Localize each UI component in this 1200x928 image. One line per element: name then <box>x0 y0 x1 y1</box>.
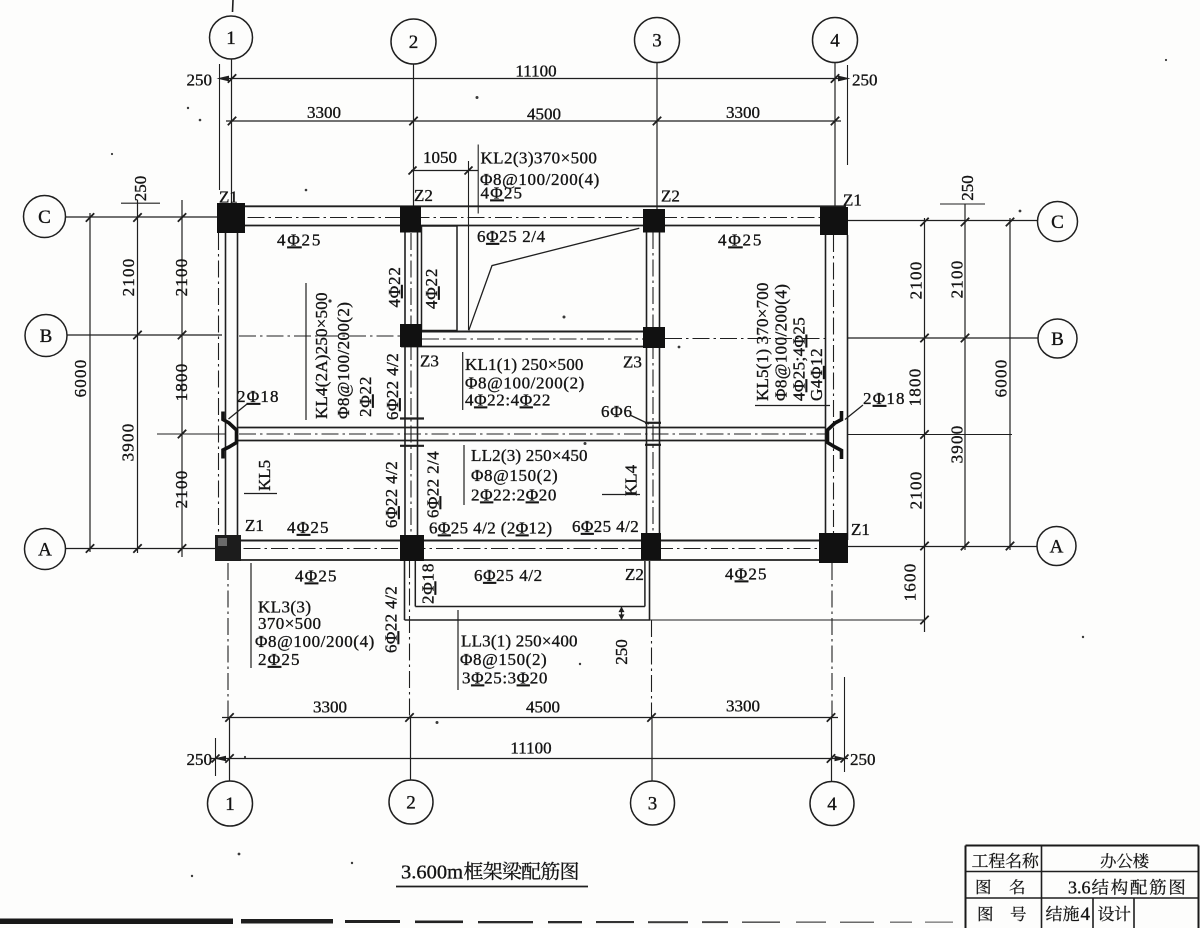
axis 3 stem top <box>656 63 658 210</box>
title underline <box>396 886 588 888</box>
svg-text:Z2: Z2 <box>661 187 680 206</box>
left dim line 2100/1800/2100 <box>181 200 183 557</box>
svg-text:4Φ25: 4Φ25 <box>481 184 524 203</box>
column Z2 bottom axis2 <box>400 535 424 561</box>
svg-text:B: B <box>40 326 53 347</box>
right dim line 2100/1800/2100/1600 <box>924 218 926 632</box>
title block row3 divider 2 <box>1133 898 1135 928</box>
beam KL2 on axis C bottom edge <box>219 225 846 227</box>
title block row line 1 <box>966 871 1199 873</box>
right dim line 6000 <box>1009 218 1011 550</box>
svg-text:Φ8@100/200(4): Φ8@100/200(4) <box>772 284 791 401</box>
svg-text:6Φ25 4/2 (2Φ12): 6Φ25 4/2 (2Φ12) <box>429 519 552 538</box>
axis A centerline <box>216 548 848 550</box>
beam KL3 on axis A bottom edge <box>215 559 848 561</box>
axis B centerline left bay <box>239 335 400 337</box>
column Z1 top-right <box>820 207 848 235</box>
middle beam extension left <box>157 433 225 435</box>
svg-text:4Φ25: 4Φ25 <box>277 231 322 250</box>
wall edge tick left <box>121 202 160 204</box>
axis 3 centerline <box>652 232 654 533</box>
svg-text:A: A <box>1050 537 1064 558</box>
svg-text:3300: 3300 <box>313 698 347 717</box>
scan specks <box>476 96 479 99</box>
axis 2 centerline LL3/below <box>409 561 411 718</box>
svg-text:Z3: Z3 <box>623 353 642 372</box>
column Z1 bottom-right <box>819 533 848 563</box>
svg-text:KL5(1) 370×700: KL5(1) 370×700 <box>753 282 772 401</box>
axis A stem left <box>66 548 216 550</box>
svg-text:3.6: 3.6 <box>1068 878 1091 898</box>
svg-text:3900: 3900 <box>948 425 967 464</box>
svg-text:1600: 1600 <box>901 563 920 602</box>
wall edge tick right <box>940 203 985 205</box>
svg-text:Z3: Z3 <box>420 352 439 371</box>
column Z2 top axis3 <box>643 209 665 233</box>
svg-text:4Φ22: 4Φ22 <box>385 266 404 307</box>
beam KL5 on axis 1 left edge <box>225 233 227 535</box>
left dim line 2100/3900 <box>137 200 139 553</box>
svg-text:2Φ25: 2Φ25 <box>258 650 301 669</box>
title block text 设计 <box>1098 906 1130 922</box>
top dim line 3300-4500-3300 <box>226 120 841 122</box>
svg-text:Z2: Z2 <box>625 565 644 584</box>
axis 4 centerline below A <box>831 563 833 718</box>
svg-text:2Φ18: 2Φ18 <box>419 563 438 604</box>
beam on axis 3 left edge <box>646 232 648 534</box>
svg-text:3900: 3900 <box>119 423 138 462</box>
stirrup ticks at axis3 x middle beam <box>645 422 661 424</box>
grid circle 2 (top) <box>391 19 436 64</box>
title block row line 2 <box>966 897 1199 899</box>
svg-text:4Φ22: 4Φ22 <box>422 268 441 309</box>
svg-text:2: 2 <box>406 793 416 814</box>
svg-text:2Φ18: 2Φ18 <box>237 387 280 406</box>
svg-text:2100: 2100 <box>948 260 967 299</box>
svg-text:1: 1 <box>226 28 236 49</box>
grid circle B (left) <box>25 315 67 357</box>
svg-text:250: 250 <box>131 176 150 202</box>
LL2 text border line <box>463 445 465 505</box>
svg-text:2100: 2100 <box>172 258 191 297</box>
drawing title CJK part <box>464 862 578 880</box>
beam KL5(1) on axis 4 right edge <box>847 235 849 540</box>
beam LL3 inner left edge <box>414 561 416 607</box>
beam LL2 middle bottom edge <box>238 440 826 442</box>
title block text 图名 <box>977 879 991 894</box>
axis 1 centerline below A <box>227 563 229 718</box>
grid circle A (right) <box>1037 527 1076 566</box>
svg-text:6Φ25 4/2: 6Φ25 4/2 <box>474 566 543 585</box>
axis 2 centerline <box>410 233 412 535</box>
svg-text:3300: 3300 <box>307 103 341 122</box>
svg-text:KL1(1) 250×500: KL1(1) 250×500 <box>465 355 584 374</box>
beam on axis 2 left edge <box>404 232 406 535</box>
svg-text:3Φ25:3Φ20: 3Φ25:3Φ20 <box>462 669 548 688</box>
grid circle 2 (bottom) <box>389 780 433 824</box>
axis 4 stem top <box>834 63 836 208</box>
title block text 办公楼 <box>1101 853 1149 868</box>
svg-text:4Φ25: 4Φ25 <box>718 231 763 250</box>
wall edge extension bottom-left <box>215 738 217 776</box>
svg-text:6000: 6000 <box>71 359 90 398</box>
bottom dim line 11100 <box>210 758 848 760</box>
grid circle 4 (bottom) <box>810 782 854 826</box>
grid circle C (left) <box>24 196 66 238</box>
beam LL3 outer right edge <box>649 561 651 620</box>
svg-text:6Φ22 4/2: 6Φ22 4/2 <box>383 353 402 420</box>
title block text 工程名称 <box>972 853 1038 869</box>
svg-text:2: 2 <box>409 32 419 53</box>
right dim line 2100/3900 <box>964 204 966 550</box>
KL2 text border line <box>477 145 479 214</box>
svg-text:3300: 3300 <box>726 103 760 122</box>
beam KL5 on axis 1 right edge <box>237 233 239 535</box>
arrowhead 250 bottom-left <box>214 756 226 762</box>
svg-text:4500: 4500 <box>527 105 561 124</box>
title block text 图号 <box>979 906 993 921</box>
svg-text:4Φ25: 4Φ25 <box>725 565 768 584</box>
title block text 结施4 <box>1046 906 1079 922</box>
grid circle 4 (top) <box>813 18 858 63</box>
beam KL5(1) on axis 4 left edge <box>825 235 827 535</box>
svg-text:2Φ22:2Φ20: 2Φ22:2Φ20 <box>471 486 557 505</box>
beam LL2 middle top edge <box>238 427 826 429</box>
KL3 text border line <box>250 563 252 668</box>
beam on axis 3 right edge <box>659 232 661 534</box>
axis 4 centerline <box>833 235 835 535</box>
axis 1 stem bottom <box>229 718 231 782</box>
dim line 1050 <box>411 170 478 172</box>
svg-text:4Φ25: 4Φ25 <box>287 518 330 537</box>
svg-text:3.600m: 3.600m <box>401 862 463 884</box>
beam on axis 2 right edge <box>417 232 419 535</box>
svg-text:2Φ22: 2Φ22 <box>356 376 375 417</box>
column Z3 axis3 <box>643 327 665 348</box>
svg-text:C: C <box>38 207 51 228</box>
svg-text:250: 250 <box>958 175 977 201</box>
beam LL3 outer bottom edge <box>405 619 651 621</box>
svg-text:4Φ25;4Φ25: 4Φ25;4Φ25 <box>790 317 809 401</box>
arrowhead 250 top-left <box>217 76 230 82</box>
LL3 bottom extension to 1600 dim <box>650 619 925 621</box>
wall edge extension bottom-right <box>844 677 846 772</box>
axis C stem left <box>66 216 220 218</box>
axis 4 stem bottom <box>831 718 833 782</box>
beam LL3 outer left edge <box>404 561 406 620</box>
svg-text:KL4(2A)250×500: KL4(2A)250×500 <box>312 292 331 419</box>
axis 2 stem top <box>413 64 415 206</box>
svg-text:4Φ22:4Φ22: 4Φ22:4Φ22 <box>465 391 551 410</box>
svg-text:3: 3 <box>652 31 662 52</box>
beam LL3 inner right edge <box>644 561 646 607</box>
svg-text:250: 250 <box>612 639 631 665</box>
svg-text:2100: 2100 <box>172 470 191 509</box>
axis 2 stem bottom <box>410 718 412 781</box>
svg-text:11100: 11100 <box>515 62 556 81</box>
svg-text:2100: 2100 <box>119 258 138 297</box>
svg-text:370×500: 370×500 <box>258 614 321 633</box>
svg-text:1800: 1800 <box>172 363 191 402</box>
svg-text:2100: 2100 <box>907 261 926 300</box>
KL1 text border line <box>462 352 464 410</box>
wall edge extension top-left <box>219 64 221 190</box>
axis 3 stem bottom <box>651 718 653 782</box>
axis A stem right <box>848 546 1037 548</box>
svg-text:250: 250 <box>850 750 876 769</box>
stirrup ticks at axis2 x middle beam <box>400 417 424 419</box>
middle beam centerline <box>239 433 825 435</box>
svg-text:Z1: Z1 <box>851 520 870 539</box>
leader for 2-18 right <box>845 405 863 420</box>
beam KL1 on axis B top edge <box>401 331 664 333</box>
svg-text:KL4: KL4 <box>622 464 641 496</box>
extension line at 1050 end / leader to B beam <box>468 161 470 330</box>
axis C centerline <box>220 217 846 219</box>
beam KL3 on axis A top edge <box>215 540 848 542</box>
beam KL1 on axis B bottom edge <box>401 346 664 348</box>
svg-text:KL2(3)370×500: KL2(3)370×500 <box>481 149 598 168</box>
bottom dim line 3300-4500-3300 <box>222 717 838 719</box>
svg-text:2Φ18: 2Φ18 <box>863 389 906 408</box>
svg-text:LL2(3) 250×450: LL2(3) 250×450 <box>471 446 588 465</box>
axis B centerline (KL1) <box>422 338 643 340</box>
svg-text:A: A <box>38 540 52 561</box>
svg-text:Φ8@150(2): Φ8@150(2) <box>471 466 558 485</box>
svg-text:1800: 1800 <box>906 368 925 407</box>
axis B stem left <box>67 334 222 336</box>
arrow dim 250 at LL3 <box>621 607 623 621</box>
svg-text:Z1: Z1 <box>843 191 862 210</box>
bent-up bar symbol left 2-18 <box>223 412 237 459</box>
arrowhead 250 top-right <box>838 76 851 82</box>
bent-up bar symbol right 2-18 <box>828 411 842 459</box>
svg-text:Φ8@100/200(4): Φ8@100/200(4) <box>255 632 375 651</box>
svg-text:11100: 11100 <box>510 739 551 758</box>
svg-text:3300: 3300 <box>726 697 760 716</box>
beam KL2 on axis C top edge <box>219 205 846 207</box>
svg-text:6Φ6: 6Φ6 <box>601 402 633 421</box>
svg-text:Z1: Z1 <box>219 188 238 207</box>
svg-text:6Φ22 4/2: 6Φ22 4/2 <box>382 461 401 528</box>
column Z2 top axis2 <box>400 206 421 233</box>
svg-text:G4Φ12: G4Φ12 <box>807 348 826 401</box>
svg-text:KL5: KL5 <box>255 460 274 491</box>
svg-text:4: 4 <box>1081 904 1091 925</box>
title block outer border <box>966 846 1199 928</box>
grid circle A (left) <box>25 529 66 570</box>
column Z2 bottom axis3 <box>641 533 661 560</box>
arrowhead 250 bottom-right <box>835 756 847 762</box>
grid circle B (right) <box>1038 319 1077 358</box>
axis B stem right <box>848 337 1038 339</box>
grid circle 1 (top) <box>210 16 253 59</box>
svg-text:Z1: Z1 <box>245 516 264 535</box>
svg-text:250: 250 <box>187 750 213 769</box>
svg-text:2100: 2100 <box>907 471 926 510</box>
KL5 leader line <box>244 493 277 495</box>
column Z3 axis2 <box>400 324 422 347</box>
middle beam extension right <box>848 434 1012 436</box>
svg-text:1: 1 <box>225 794 235 815</box>
grid circle 1 (bottom) <box>208 781 253 826</box>
grid circle 3 (bottom) <box>631 781 675 825</box>
open rect below Z2 (KL2 leader box) <box>422 226 458 331</box>
KL4 leader line <box>602 494 640 496</box>
svg-text:C: C <box>1051 212 1064 233</box>
KL4 block border line <box>305 283 307 420</box>
grid circle C (right) <box>1038 202 1078 242</box>
svg-text:4Φ25: 4Φ25 <box>295 567 338 586</box>
grid circle 3 (top) <box>635 18 680 63</box>
title block row3 divider 1 <box>1092 898 1094 928</box>
axis 3 centerline below LL3 <box>651 620 653 718</box>
column Z1 top-left <box>217 203 245 233</box>
svg-text:3: 3 <box>648 794 658 815</box>
axis C stem right <box>848 220 1038 222</box>
title block column line <box>1041 846 1043 928</box>
svg-text:Φ8@100/200(2): Φ8@100/200(2) <box>334 302 353 419</box>
svg-text:LL3(1) 250×400: LL3(1) 250×400 <box>461 632 578 651</box>
diagonal leader 6-25 2/4 to Z2 <box>469 228 640 330</box>
top dim line 11100 <box>224 78 842 80</box>
axis B centerline right bay <box>665 338 826 340</box>
svg-text:4: 4 <box>827 794 837 815</box>
axis 1 centerline <box>218 233 220 535</box>
svg-text:4: 4 <box>830 31 840 52</box>
wall edge extension top-right <box>847 65 849 165</box>
svg-text:6Φ22 2/4: 6Φ22 2/4 <box>424 451 443 518</box>
svg-text:250: 250 <box>187 71 213 90</box>
column Z1 bottom-left <box>215 535 241 561</box>
svg-text:6Φ22 4/2: 6Φ22 4/2 <box>382 586 401 653</box>
svg-text:Z2: Z2 <box>414 186 433 205</box>
axis 1 stem top <box>231 59 233 203</box>
svg-text:Φ8@150(2): Φ8@150(2) <box>460 650 547 669</box>
svg-text:4500: 4500 <box>526 698 560 717</box>
LL3 text border line <box>457 610 459 690</box>
svg-text:1050: 1050 <box>423 148 457 167</box>
leader 6-6 to axis3 crossing <box>631 416 649 425</box>
left dim line 6000 <box>89 213 91 552</box>
beam LL3 inner bottom edge <box>415 606 645 608</box>
stray mark above circle 1 <box>232 0 235 12</box>
KL5(1) block border line <box>755 405 830 407</box>
svg-text:6Φ25 2/4: 6Φ25 2/4 <box>477 227 546 246</box>
svg-text:6Φ25 4/2: 6Φ25 4/2 <box>572 517 639 536</box>
svg-text:6000: 6000 <box>992 359 1011 398</box>
svg-text:250: 250 <box>852 71 878 90</box>
svg-text:B: B <box>1051 329 1064 350</box>
scan band bottom <box>0 919 233 925</box>
leader for 2-18 left <box>229 404 248 419</box>
